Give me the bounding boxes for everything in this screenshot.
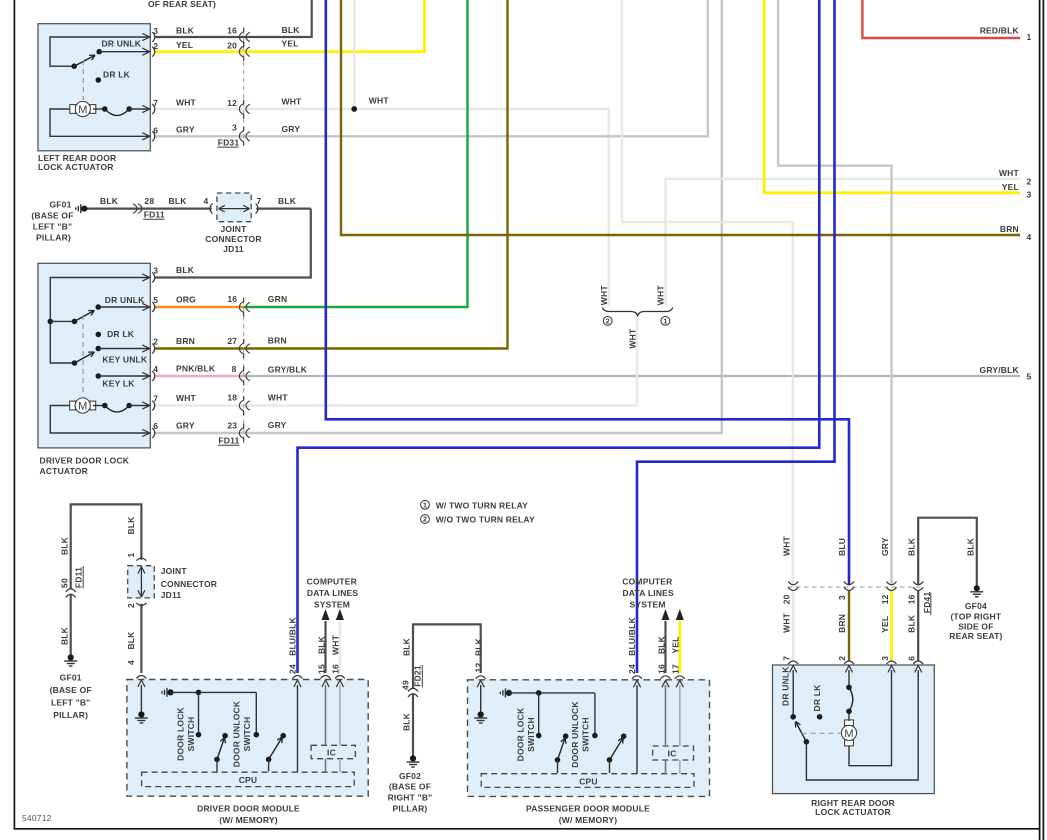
svg-text:GRY: GRY bbox=[176, 420, 195, 430]
svg-text:DR UNLK: DR UNLK bbox=[105, 295, 145, 305]
svg-text:M: M bbox=[78, 401, 87, 413]
svg-text:GRY/BLK: GRY/BLK bbox=[268, 365, 308, 375]
svg-text:CPU: CPU bbox=[579, 776, 598, 786]
svg-text:3: 3 bbox=[153, 266, 158, 276]
svg-text:CPU: CPU bbox=[239, 775, 258, 785]
svg-text:SWITCH: SWITCH bbox=[526, 717, 536, 752]
svg-text:7: 7 bbox=[153, 394, 158, 404]
svg-text:BLU/BLK: BLU/BLK bbox=[627, 616, 637, 655]
svg-text:ORG: ORG bbox=[176, 294, 196, 304]
svg-text:BLU: BLU bbox=[837, 538, 847, 556]
svg-text:YEL: YEL bbox=[282, 39, 299, 49]
svg-text:GRY/BLK: GRY/BLK bbox=[980, 365, 1020, 375]
svg-text:SYSTEM: SYSTEM bbox=[630, 600, 666, 610]
svg-text:7: 7 bbox=[153, 98, 158, 108]
svg-text:540712: 540712 bbox=[22, 813, 52, 823]
svg-text:PNK/BLK: PNK/BLK bbox=[176, 363, 216, 373]
svg-text:6: 6 bbox=[153, 126, 158, 136]
svg-text:49: 49 bbox=[401, 680, 411, 690]
svg-text:4: 4 bbox=[153, 364, 158, 374]
svg-text:FD21: FD21 bbox=[412, 665, 422, 687]
svg-text:DR UNLK: DR UNLK bbox=[102, 39, 142, 49]
svg-text:YEL: YEL bbox=[1002, 182, 1019, 192]
svg-text:BLK: BLK bbox=[402, 712, 412, 731]
svg-text:5: 5 bbox=[1027, 372, 1032, 382]
svg-text:(BASE OF: (BASE OF bbox=[31, 210, 73, 220]
svg-text:DRIVER DOOR MODULE: DRIVER DOOR MODULE bbox=[197, 804, 300, 814]
svg-text:BRN: BRN bbox=[837, 614, 847, 633]
svg-text:FD11: FD11 bbox=[144, 210, 165, 220]
svg-text:16: 16 bbox=[656, 664, 666, 674]
svg-text:BLK: BLK bbox=[316, 635, 326, 654]
svg-text:SIDE OF: SIDE OF bbox=[958, 622, 993, 632]
svg-text:YEL: YEL bbox=[880, 616, 890, 633]
svg-text:ACTUATOR: ACTUATOR bbox=[40, 466, 89, 476]
svg-text:GF02: GF02 bbox=[399, 771, 421, 781]
svg-text:DRIVER DOOR LOCK: DRIVER DOOR LOCK bbox=[40, 455, 130, 465]
svg-text:(W/ MEMORY): (W/ MEMORY) bbox=[559, 815, 618, 825]
svg-text:5: 5 bbox=[153, 295, 158, 305]
svg-text:12: 12 bbox=[227, 98, 237, 108]
svg-text:3: 3 bbox=[232, 123, 237, 133]
svg-text:23: 23 bbox=[227, 421, 237, 431]
svg-text:RED/BLK: RED/BLK bbox=[980, 25, 1020, 35]
svg-text:FD11: FD11 bbox=[73, 567, 83, 588]
svg-text:6: 6 bbox=[153, 421, 158, 431]
svg-text:20: 20 bbox=[227, 41, 237, 51]
svg-text:DR LK: DR LK bbox=[103, 69, 131, 79]
svg-text:2: 2 bbox=[606, 319, 610, 326]
svg-text:2: 2 bbox=[126, 603, 136, 608]
svg-text:IC: IC bbox=[327, 748, 336, 758]
svg-text:18: 18 bbox=[227, 393, 237, 403]
svg-text:1: 1 bbox=[663, 319, 667, 326]
svg-text:(W/ MEMORY): (W/ MEMORY) bbox=[219, 815, 278, 825]
svg-text:IC: IC bbox=[668, 749, 677, 759]
svg-text:DATA LINES: DATA LINES bbox=[307, 588, 359, 598]
svg-text:LEFT "B": LEFT "B" bbox=[51, 697, 90, 707]
svg-text:DATA LINES: DATA LINES bbox=[622, 588, 674, 598]
svg-text:SWITCH: SWITCH bbox=[186, 717, 196, 752]
svg-text:2: 2 bbox=[153, 337, 158, 347]
svg-text:BLK: BLK bbox=[965, 537, 975, 556]
svg-text:BLK: BLK bbox=[474, 637, 484, 656]
svg-text:PASSENGER DOOR MODULE: PASSENGER DOOR MODULE bbox=[526, 804, 650, 814]
svg-text:WHT: WHT bbox=[176, 97, 197, 107]
svg-text:3: 3 bbox=[1027, 189, 1032, 199]
svg-text:DR LK: DR LK bbox=[812, 684, 822, 712]
svg-text:8: 8 bbox=[232, 364, 237, 374]
svg-text:1: 1 bbox=[1027, 32, 1032, 42]
svg-text:WHT: WHT bbox=[331, 634, 341, 655]
svg-text:BLK: BLK bbox=[176, 25, 195, 35]
svg-text:BLK: BLK bbox=[126, 631, 136, 650]
svg-text:COMPUTER: COMPUTER bbox=[307, 577, 357, 587]
svg-text:BLK: BLK bbox=[126, 516, 136, 535]
svg-text:GF04: GF04 bbox=[965, 601, 987, 611]
svg-text:WHT: WHT bbox=[782, 535, 792, 556]
svg-text:WHT: WHT bbox=[782, 612, 792, 633]
svg-text:BLK: BLK bbox=[656, 635, 666, 654]
svg-text:4: 4 bbox=[126, 660, 136, 665]
svg-text:BRN: BRN bbox=[176, 336, 195, 346]
svg-text:BLK: BLK bbox=[278, 196, 297, 206]
svg-text:(BASE OF: (BASE OF bbox=[389, 782, 431, 792]
svg-text:BLK: BLK bbox=[100, 196, 119, 206]
svg-text:YEL: YEL bbox=[671, 636, 681, 653]
svg-text:LOCK ACTUATOR: LOCK ACTUATOR bbox=[815, 807, 891, 817]
svg-text:2: 2 bbox=[423, 517, 427, 524]
svg-text:DR LK: DR LK bbox=[107, 329, 135, 339]
svg-text:GF01: GF01 bbox=[60, 672, 82, 682]
svg-text:20: 20 bbox=[782, 594, 792, 604]
svg-text:BLK: BLK bbox=[176, 265, 195, 275]
svg-text:BLK: BLK bbox=[907, 614, 917, 633]
svg-text:SWITCH: SWITCH bbox=[580, 717, 590, 752]
svg-text:FD11: FD11 bbox=[218, 436, 239, 446]
svg-text:17: 17 bbox=[671, 664, 681, 674]
svg-text:W/ TWO TURN RELAY: W/ TWO TURN RELAY bbox=[436, 501, 528, 511]
svg-text:JOINT: JOINT bbox=[161, 566, 188, 576]
svg-text:GRY: GRY bbox=[176, 125, 195, 135]
svg-text:JD11: JD11 bbox=[223, 244, 244, 254]
svg-text:PILLAR): PILLAR) bbox=[393, 803, 428, 813]
svg-text:GRY: GRY bbox=[880, 537, 890, 556]
svg-text:CONNECTOR: CONNECTOR bbox=[161, 579, 217, 589]
svg-text:2: 2 bbox=[153, 41, 158, 51]
svg-text:WHT: WHT bbox=[627, 328, 637, 349]
svg-text:DOOR LOCK: DOOR LOCK bbox=[516, 707, 526, 761]
svg-text:1: 1 bbox=[126, 552, 136, 557]
svg-text:4: 4 bbox=[204, 196, 209, 206]
svg-text:W/O TWO TURN RELAY: W/O TWO TURN RELAY bbox=[436, 515, 535, 525]
svg-text:PILLAR): PILLAR) bbox=[53, 710, 88, 720]
svg-text:16: 16 bbox=[907, 594, 917, 604]
svg-text:GRN: GRN bbox=[268, 294, 288, 304]
svg-text:7: 7 bbox=[257, 196, 262, 206]
svg-text:DR UNLK: DR UNLK bbox=[780, 666, 790, 706]
svg-text:FD31: FD31 bbox=[218, 137, 240, 147]
svg-text:(TOP RIGHT: (TOP RIGHT bbox=[950, 612, 1001, 622]
svg-text:12: 12 bbox=[880, 594, 890, 604]
svg-text:BLK: BLK bbox=[59, 536, 69, 555]
svg-text:COMPUTER: COMPUTER bbox=[622, 577, 672, 587]
svg-text:OF REAR SEAT): OF REAR SEAT) bbox=[148, 0, 216, 9]
svg-text:SYSTEM: SYSTEM bbox=[314, 600, 350, 610]
svg-text:27: 27 bbox=[227, 336, 237, 346]
svg-text:12: 12 bbox=[474, 663, 484, 673]
svg-text:16: 16 bbox=[331, 664, 341, 674]
svg-text:3: 3 bbox=[880, 656, 890, 661]
svg-text:24: 24 bbox=[288, 664, 298, 674]
svg-text:REAR SEAT): REAR SEAT) bbox=[949, 631, 1002, 641]
svg-text:BLK: BLK bbox=[59, 626, 69, 645]
svg-text:50: 50 bbox=[59, 578, 69, 588]
svg-text:WHT: WHT bbox=[282, 97, 303, 107]
svg-text:WHT: WHT bbox=[268, 393, 289, 403]
svg-text:16: 16 bbox=[227, 294, 237, 304]
svg-text:BLK: BLK bbox=[282, 25, 301, 35]
svg-text:BLK: BLK bbox=[169, 196, 188, 206]
svg-text:JD11: JD11 bbox=[161, 590, 182, 600]
svg-text:M: M bbox=[844, 728, 853, 740]
svg-text:BRN: BRN bbox=[268, 336, 287, 346]
svg-text:GRY: GRY bbox=[268, 420, 287, 430]
svg-text:LOCK ACTUATOR: LOCK ACTUATOR bbox=[38, 162, 114, 172]
svg-text:3: 3 bbox=[837, 595, 847, 600]
svg-text:JOINT: JOINT bbox=[220, 224, 247, 234]
svg-text:YEL: YEL bbox=[176, 40, 193, 50]
svg-text:BLK: BLK bbox=[402, 637, 412, 656]
svg-text:BLU/BLK: BLU/BLK bbox=[287, 616, 297, 655]
svg-text:3: 3 bbox=[153, 26, 158, 36]
svg-text:DOOR UNLOCK: DOOR UNLOCK bbox=[570, 701, 580, 768]
svg-text:6: 6 bbox=[907, 656, 917, 661]
svg-text:CONNECTOR: CONNECTOR bbox=[205, 234, 261, 244]
svg-text:(BASE OF: (BASE OF bbox=[50, 685, 92, 695]
svg-text:DOOR UNLOCK: DOOR UNLOCK bbox=[231, 700, 241, 767]
svg-text:WHT: WHT bbox=[369, 96, 390, 106]
svg-text:WHT: WHT bbox=[999, 168, 1020, 178]
svg-text:WHT: WHT bbox=[176, 393, 197, 403]
svg-text:7: 7 bbox=[782, 656, 792, 661]
svg-text:GF01: GF01 bbox=[49, 199, 71, 209]
svg-text:RIGHT "B": RIGHT "B" bbox=[388, 793, 433, 803]
svg-text:16: 16 bbox=[227, 26, 237, 36]
svg-text:PILLAR): PILLAR) bbox=[36, 233, 71, 243]
svg-text:LEFT "B": LEFT "B" bbox=[33, 221, 72, 231]
svg-text:M: M bbox=[78, 104, 87, 116]
svg-text:WHT: WHT bbox=[656, 285, 666, 306]
svg-text:15: 15 bbox=[316, 664, 326, 674]
svg-text:28: 28 bbox=[144, 196, 154, 206]
svg-text:1: 1 bbox=[423, 502, 427, 509]
svg-text:BRN: BRN bbox=[1000, 224, 1019, 234]
svg-text:2: 2 bbox=[1027, 177, 1032, 187]
svg-text:2: 2 bbox=[837, 656, 847, 661]
svg-text:KEY UNLK: KEY UNLK bbox=[102, 354, 148, 364]
svg-text:KEY LK: KEY LK bbox=[102, 379, 135, 389]
svg-text:WHT: WHT bbox=[599, 285, 609, 306]
svg-text:SWITCH: SWITCH bbox=[242, 717, 252, 752]
svg-text:24: 24 bbox=[627, 664, 637, 674]
svg-text:4: 4 bbox=[1027, 232, 1032, 242]
svg-text:DOOR LOCK: DOOR LOCK bbox=[176, 706, 186, 760]
svg-text:GRY: GRY bbox=[282, 124, 301, 134]
svg-text:BLK: BLK bbox=[907, 537, 917, 556]
